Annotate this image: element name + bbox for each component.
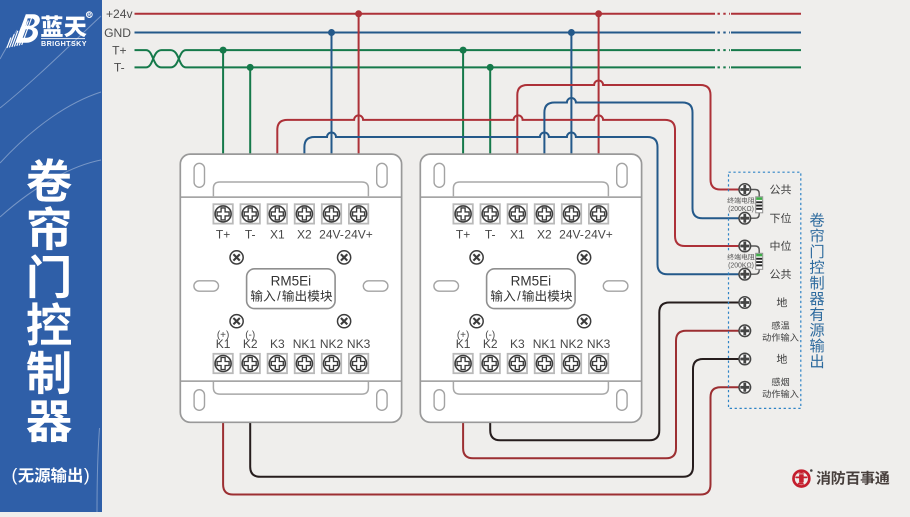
svg-text:NK3: NK3 (347, 337, 371, 351)
svg-text:X1: X1 (270, 228, 285, 242)
svg-text:(200KΩ): (200KΩ) (728, 206, 754, 213)
svg-text:K1: K1 (216, 337, 231, 351)
svg-text:K3: K3 (270, 337, 285, 351)
svg-text:(200KΩ): (200KΩ) (728, 263, 754, 270)
svg-text:T+: T+ (112, 43, 126, 57)
svg-text:T+: T+ (216, 228, 230, 242)
svg-text:BRIGHTSKY: BRIGHTSKY (41, 39, 87, 48)
svg-text:/: / (517, 290, 521, 304)
svg-text:GND: GND (104, 26, 131, 40)
svg-text:NK1: NK1 (293, 337, 317, 351)
svg-text:): ) (84, 465, 90, 485)
svg-text:T-: T- (114, 61, 125, 75)
svg-text:K2: K2 (243, 337, 258, 351)
svg-text:24V-: 24V- (319, 228, 344, 242)
svg-text:24V+: 24V+ (344, 228, 372, 242)
svg-text:T-: T- (245, 228, 256, 242)
svg-text:+24v: +24v (106, 7, 133, 21)
svg-text:/: / (277, 290, 281, 304)
svg-text:R: R (87, 13, 91, 19)
svg-text:RM5Ei: RM5Ei (271, 273, 312, 288)
svg-text:(: ( (11, 465, 17, 485)
svg-text:NK2: NK2 (320, 337, 344, 351)
svg-text:X2: X2 (297, 228, 312, 242)
